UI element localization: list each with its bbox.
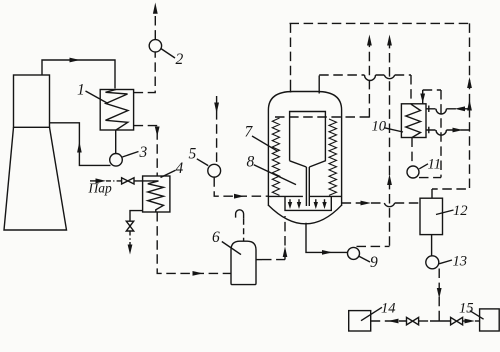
svg-text:12: 12 (453, 203, 468, 219)
svg-text:13: 13 (453, 254, 468, 270)
svg-text:8: 8 (247, 154, 255, 171)
svg-text:6: 6 (212, 229, 220, 246)
svg-text:Пар: Пар (88, 181, 112, 196)
svg-text:11: 11 (428, 157, 442, 173)
svg-text:1: 1 (77, 82, 85, 99)
svg-text:7: 7 (245, 124, 254, 141)
svg-text:14: 14 (381, 301, 396, 317)
svg-text:5: 5 (189, 146, 197, 163)
svg-text:3: 3 (139, 144, 148, 161)
svg-text:9: 9 (370, 254, 378, 271)
svg-text:4: 4 (176, 160, 184, 177)
svg-text:10: 10 (372, 119, 387, 135)
svg-text:15: 15 (459, 301, 474, 317)
svg-text:2: 2 (176, 51, 184, 68)
